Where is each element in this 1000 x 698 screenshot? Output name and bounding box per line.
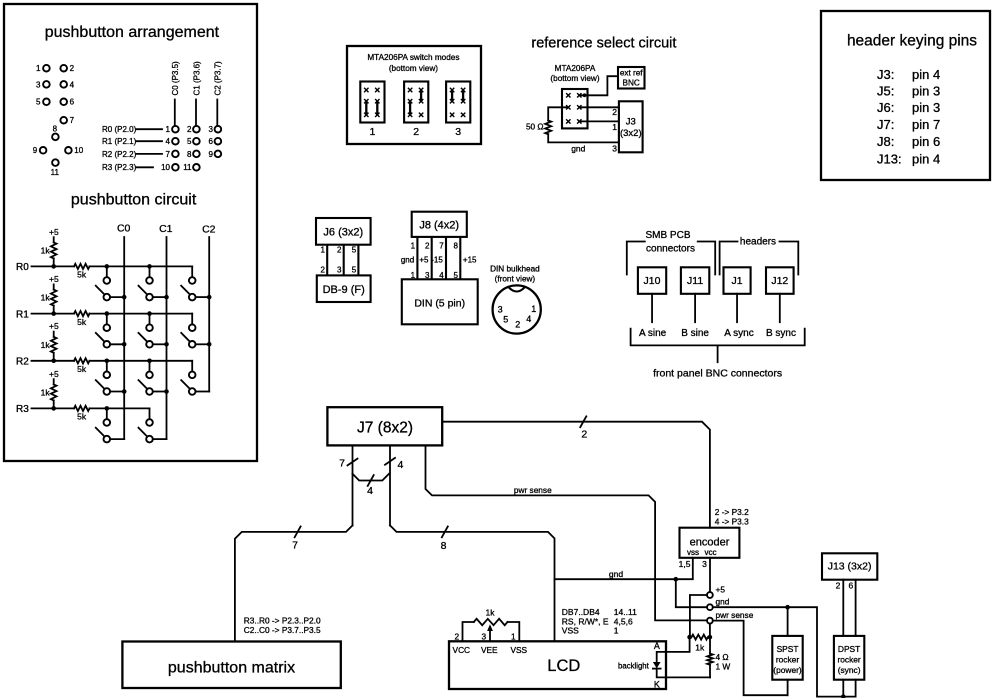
svg-text:headers: headers [740, 237, 776, 248]
svg-text:J13:: J13: [877, 151, 902, 166]
LCD signal mapping text [562, 607, 637, 636]
row label R2 [16, 357, 29, 368]
svg-text:J7:: J7: [877, 117, 894, 132]
svg-text:pwr sense: pwr sense [514, 485, 552, 495]
row R3 of matrix arrangement [102, 163, 200, 172]
encoder box [680, 528, 740, 558]
svg-text:R0 (P2.0): R0 (P2.0) [102, 125, 137, 134]
svg-text:5: 5 [503, 314, 508, 324]
keying entry J13: pin 4 [877, 151, 940, 166]
title: reference select circuit [531, 36, 676, 52]
+5 supply for row R0 [49, 227, 59, 243]
svg-text:1k: 1k [695, 643, 705, 653]
column label C0 [117, 223, 131, 235]
svg-text:C2..C0 -> P3.7..P3.5: C2..C0 -> P3.7..P3.5 [244, 625, 321, 635]
svg-text:5k: 5k [77, 270, 87, 280]
button 11 (arrangement view) [51, 159, 60, 177]
connector J6 (3x2) [316, 218, 371, 245]
svg-text:7: 7 [292, 540, 298, 552]
wire gnd run [555, 558, 693, 579]
svg-text:DB-9 (F): DB-9 (F) [323, 284, 365, 296]
pushbutton switch row R2 col C2 [181, 361, 209, 395]
svg-text:vcc: vcc [705, 548, 717, 557]
column wire C1 [166, 237, 168, 439]
svg-text:(3x2): (3x2) [620, 128, 642, 139]
svg-text:J3:: J3: [877, 67, 894, 82]
+5 supply for row R3 [49, 369, 59, 385]
bracket headers left [720, 242, 738, 275]
svg-text:MTA206PA: MTA206PA [555, 64, 596, 73]
svg-text:8: 8 [53, 125, 58, 134]
svg-text:1 W: 1 W [716, 662, 731, 672]
pushbutton switch row R3 col C1 [139, 408, 167, 442]
resistor 5k series row R1 [74, 311, 90, 327]
MTA206PA switch modes enclosure [347, 46, 481, 144]
svg-text:LCD: LCD [547, 657, 580, 675]
svg-text:gnd: gnd [716, 597, 730, 607]
svg-text:J12: J12 [771, 275, 788, 287]
junction row R0 / 1k [51, 264, 56, 269]
resistor 1k pull-up row R3 [41, 384, 57, 408]
title: pushbutton arrangement [45, 24, 220, 41]
svg-text:VSS: VSS [562, 626, 579, 636]
svg-text:B sync: B sync [766, 328, 796, 339]
svg-text:7: 7 [439, 241, 444, 250]
svg-text:C1 (P3.6): C1 (P3.6) [192, 61, 201, 96]
wire row R0 horizontal [32, 265, 193, 267]
column label C2 [202, 224, 216, 236]
pushbutton switch row R0 col C1 [139, 264, 169, 300]
svg-text:3: 3 [702, 559, 707, 569]
resistor 5k series row R0 [74, 264, 90, 280]
label SMB PCB connectors [645, 230, 694, 255]
wire J12 to B sync [779, 294, 781, 322]
svg-text:R0: R0 [16, 262, 29, 273]
svg-text:3: 3 [481, 631, 486, 641]
svg-text:R1 (P2.1): R1 (P2.1) [102, 137, 137, 146]
svg-text:J8 (4x2): J8 (4x2) [419, 220, 459, 232]
terminal +5 [707, 584, 725, 598]
button 8 (arrangement view) [52, 125, 59, 141]
label B sine [681, 328, 709, 339]
svg-text:9: 9 [33, 146, 38, 155]
svg-text:1: 1 [612, 122, 617, 132]
svg-text:4: 4 [166, 137, 171, 146]
resistor 1k backlight [687, 635, 712, 653]
switch mode 3 diagram [446, 82, 470, 138]
svg-text:R1: R1 [16, 309, 29, 320]
svg-text:5: 5 [352, 266, 357, 275]
svg-text:A: A [654, 641, 660, 651]
svg-text:4: 4 [398, 459, 404, 471]
J6 to DB-9 wire 2-3 [337, 245, 344, 276]
column label C1 [159, 223, 173, 235]
pushbutton switch row R2 col C0 [96, 359, 127, 395]
J8 to DIN wire pin 7 [431, 237, 446, 280]
+5 supply for row R2 [49, 321, 59, 337]
pot pin numbers 2 3 1 [454, 631, 516, 641]
svg-text:gnd: gnd [571, 144, 585, 154]
svg-text:3: 3 [337, 266, 342, 275]
SPST rocker (power) switch [772, 636, 802, 680]
svg-text:50 Ω: 50 Ω [526, 122, 544, 131]
potentiometer 1k contrast [463, 608, 520, 642]
label encoder pins 2,4 mapping [715, 507, 749, 527]
pushbutton switch row R1 col C1 [139, 311, 169, 347]
svg-text:2: 2 [70, 64, 75, 73]
connector J12 [766, 267, 794, 294]
pushbutton switch row R1 col C2 [181, 314, 211, 348]
switch mode 1 diagram [360, 82, 384, 138]
svg-text:8: 8 [441, 540, 447, 552]
terminal pwr sense [707, 610, 754, 623]
svg-text:4 Ω: 4 Ω [716, 652, 729, 662]
svg-text:gnd: gnd [401, 255, 414, 264]
svg-text:C2: C2 [202, 224, 216, 236]
svg-text:J13 (3x2): J13 (3x2) [828, 561, 872, 573]
svg-text:1: 1 [321, 246, 326, 255]
svg-text:2: 2 [337, 246, 342, 255]
svg-text:DPST: DPST [838, 644, 860, 654]
svg-text:1: 1 [369, 126, 375, 138]
keying entry J8: pin 6 [877, 134, 940, 149]
svg-text:8: 8 [187, 150, 192, 159]
pushbutton switch row R0 col C0 [96, 264, 127, 300]
svg-text:5k: 5k [77, 412, 87, 422]
label A sine [639, 328, 667, 339]
svg-text:pin 4: pin 4 [912, 151, 940, 166]
junction gnd [674, 577, 679, 582]
LCD pin labels VCC VEE VSS [453, 645, 528, 655]
wire J13 pin 2 to DPST [836, 580, 844, 636]
svg-text:rocker: rocker [776, 654, 799, 664]
svg-text:2: 2 [413, 126, 419, 138]
svg-text:11: 11 [51, 168, 60, 177]
connector DB-9 (F) [317, 275, 371, 302]
svg-text:J10: J10 [644, 275, 661, 287]
button 2 (arrangement view) [60, 64, 74, 73]
svg-text:4: 4 [367, 485, 373, 497]
title: header keying pins [847, 33, 977, 50]
button 1 (arrangement view) [36, 64, 50, 73]
column label C2 rotated [214, 61, 223, 126]
resistor 1k pull-up row R0 [41, 242, 57, 266]
svg-text:5: 5 [187, 137, 192, 146]
backlight LED diode [618, 661, 661, 670]
svg-text:B sine: B sine [681, 328, 709, 339]
svg-text:3: 3 [36, 80, 41, 89]
LCD backlight pin A [654, 641, 660, 651]
wire LED cathode K to 4 ohm [657, 669, 710, 678]
row R0 of matrix arrangement [102, 125, 221, 134]
svg-text:reference select circuit: reference select circuit [531, 36, 676, 52]
svg-text:C0: C0 [117, 223, 131, 235]
svg-text:BNC: BNC [623, 78, 640, 87]
svg-text:SPST: SPST [777, 644, 799, 654]
row R1 of matrix arrangement [102, 137, 221, 146]
svg-text:(bottom view): (bottom view) [389, 64, 438, 73]
svg-text:10: 10 [161, 163, 170, 172]
row label R3 [16, 404, 29, 415]
column label C1 rotated [192, 61, 201, 126]
pushbutton switch row R3 col C0 [96, 406, 124, 442]
svg-text:+5: +5 [419, 255, 429, 264]
svg-text:+5: +5 [49, 227, 59, 237]
svg-text:pin 3: pin 3 [912, 100, 940, 115]
wire pwr sense from J7 [426, 445, 708, 620]
title: MTA206PA switch modes (bottom view) [367, 53, 459, 73]
svg-text:10: 10 [74, 146, 83, 155]
label matrix port mapping [244, 616, 321, 635]
wire DPST left bottom pin [842, 680, 844, 697]
svg-text:+5: +5 [49, 369, 59, 379]
svg-text:pin 6: pin 6 [912, 134, 940, 149]
svg-text:J6 (3x2): J6 (3x2) [323, 227, 363, 239]
keying entry J7: pin 7 [877, 117, 940, 132]
svg-text:5: 5 [36, 98, 41, 107]
svg-text:MTA206PA switch modes: MTA206PA switch modes [367, 53, 459, 62]
svg-text:8: 8 [454, 241, 459, 250]
svg-text:1k: 1k [41, 293, 51, 303]
wire gnd to DPST bottom [713, 607, 856, 696]
svg-text:1: 1 [411, 241, 416, 250]
pushbutton panel enclosure box [4, 4, 257, 461]
label A sync [724, 328, 753, 339]
svg-text:SMB PCB: SMB PCB [645, 230, 690, 241]
wire J1 to A sync [736, 294, 738, 322]
svg-text:C0 (P3.5): C0 (P3.5) [171, 61, 180, 96]
junction row R2 / 1k [51, 359, 56, 364]
connector DIN (5 pin) [402, 279, 478, 324]
column wire C2 [208, 237, 210, 392]
svg-text:1k: 1k [41, 387, 51, 397]
svg-text:11: 11 [183, 163, 192, 172]
row label R1 [16, 309, 29, 320]
svg-text:1: 1 [166, 125, 171, 134]
wire switch to J3 pin 2 [579, 107, 619, 117]
svg-text:pin 4: pin 4 [912, 67, 940, 82]
wire SPST bottom pin [787, 680, 789, 696]
svg-text:2: 2 [187, 125, 192, 134]
J6 to DB-9 wire 1-2 [321, 245, 328, 276]
svg-text:+15: +15 [463, 255, 477, 264]
bridge bus 4 between pins [353, 474, 390, 497]
svg-text:A sync: A sync [724, 328, 753, 339]
resistor 50 ohm termination [526, 107, 568, 134]
wire J7 pin bus 7 upper [339, 445, 357, 525]
wire gnd branch to terminal [676, 579, 707, 607]
resistor 5k series row R3 [74, 406, 90, 422]
wire J13 pin 6 to DPST [848, 580, 855, 636]
wire row R3 horizontal [32, 407, 150, 409]
button 7 (arrangement view) [60, 116, 74, 125]
svg-text:gnd: gnd [609, 569, 623, 579]
button 9 (arrangement view) [33, 146, 47, 155]
wire bus 8 to LCD [390, 525, 555, 641]
svg-text:4: 4 [70, 80, 75, 89]
junction DPST left pin / gnd bus [841, 694, 846, 698]
svg-text:VEE: VEE [481, 645, 498, 655]
bracket SMB left [627, 242, 645, 275]
svg-text:(bottom view): (bottom view) [550, 74, 599, 83]
svg-text:R2: R2 [16, 357, 29, 368]
svg-text:pushbutton matrix: pushbutton matrix [168, 659, 295, 676]
svg-text:A sine: A sine [639, 328, 667, 339]
svg-text:J11: J11 [687, 275, 703, 287]
svg-text:3: 3 [209, 125, 214, 134]
svg-text:1: 1 [36, 64, 41, 73]
svg-text:2: 2 [836, 581, 841, 591]
svg-text:connectors: connectors [646, 244, 695, 255]
svg-text:5: 5 [352, 246, 357, 255]
svg-text:R3 (P2.3): R3 (P2.3) [102, 163, 137, 172]
MTA206PA switch body [562, 89, 588, 128]
bracket headers right [780, 242, 799, 275]
row R2 of matrix arrangement [102, 150, 221, 159]
LCD backlight pin K [654, 679, 660, 689]
J6 to DB-9 wire 5-5 [352, 245, 359, 276]
svg-text:3: 3 [455, 126, 461, 138]
svg-text:R2 (P2.2): R2 (P2.2) [102, 150, 137, 159]
svg-text:5k: 5k [77, 317, 87, 327]
svg-text:C2 (P3.7): C2 (P3.7) [214, 61, 223, 96]
svg-text:pin 7: pin 7 [912, 117, 940, 132]
svg-text:front panel BNC connectors: front panel BNC connectors [653, 368, 782, 380]
svg-text:C1: C1 [159, 223, 173, 235]
connector J10 [638, 267, 666, 294]
+5 supply for row R1 [49, 274, 59, 290]
wire bus 7 to pushbutton matrix [235, 525, 353, 641]
svg-text:9: 9 [209, 150, 214, 159]
svg-text:5k: 5k [77, 364, 87, 374]
row label R0 [16, 262, 29, 273]
svg-text:7: 7 [339, 458, 345, 470]
keying entry J6: pin 3 [877, 100, 940, 115]
svg-text:R3: R3 [16, 404, 29, 415]
connector J13 (3x2) [822, 553, 877, 579]
wire pwr sense to SPST bottom [713, 621, 788, 696]
button 10 (arrangement view) [65, 146, 84, 155]
svg-text:2: 2 [425, 241, 430, 250]
label headers [740, 237, 776, 248]
title: pushbutton circuit [71, 192, 197, 209]
wire switch to J3 pin 1 [579, 121, 619, 131]
svg-text:(front view): (front view) [495, 275, 536, 284]
wire J7 pin bus 4 upper [385, 445, 404, 525]
DPST rocker (sync) switch [834, 636, 864, 680]
keying entry J5: pin 3 [877, 83, 940, 98]
pushbutton switch row R2 col C1 [139, 359, 169, 395]
wire row R2 horizontal [32, 360, 193, 362]
svg-text:pwr sense: pwr sense [716, 610, 754, 620]
pushbutton matrix box [122, 642, 340, 689]
ext ref BNC box [618, 67, 645, 89]
resistor 4 ohm 1W [707, 637, 730, 677]
svg-text:backlight: backlight [618, 661, 650, 670]
svg-text:ext ref: ext ref [620, 69, 643, 78]
wire J7 to encoder (2 lines) [442, 416, 710, 527]
keying entry J3: pin 4 [877, 67, 940, 82]
label front panel BNC connectors [653, 368, 782, 380]
svg-text:4 -> P3.3: 4 -> P3.3 [715, 517, 749, 527]
svg-text:6: 6 [70, 98, 75, 107]
button 3 (arrangement view) [36, 80, 50, 89]
svg-text:J7 (8x2): J7 (8x2) [357, 420, 413, 437]
svg-text:VSS: VSS [510, 645, 527, 655]
svg-text:header keying pins: header keying pins [847, 33, 977, 50]
pushbutton switch row R1 col C0 [96, 311, 127, 347]
svg-text:2 -> P3.2: 2 -> P3.2 [715, 507, 749, 517]
svg-text:3: 3 [498, 305, 503, 315]
label MTA206PA (bottom view) [550, 64, 599, 83]
svg-text:2: 2 [321, 266, 326, 275]
junction gnd / SPST top [785, 605, 790, 610]
bracket SMB right [698, 242, 716, 275]
encoder pin labels 1,5 and 3 [679, 559, 707, 569]
svg-text:pushbutton circuit: pushbutton circuit [71, 192, 197, 209]
svg-text:+5: +5 [49, 321, 59, 331]
svg-text:1k: 1k [41, 340, 51, 350]
connector J1 [724, 267, 751, 294]
J8 to DIN wire pin 1 [401, 237, 418, 280]
svg-text:DIN bulkhead: DIN bulkhead [490, 265, 540, 274]
wire row R1 horizontal [32, 313, 193, 315]
connector J3 (3x2) [619, 101, 643, 152]
svg-text:3: 3 [612, 143, 617, 153]
wire SPST top pin [787, 607, 789, 636]
svg-text:1: 1 [531, 304, 536, 314]
connector J8 (4x2) [412, 212, 467, 237]
J8 to DIN wire pin 2 [419, 237, 431, 280]
svg-text:(power): (power) [773, 665, 802, 675]
wire encoder vcc pin 3 [709, 558, 711, 592]
svg-text:J8:: J8: [877, 134, 894, 149]
resistor 1k pull-up row R1 [41, 290, 57, 314]
svg-text:pushbutton arrangement: pushbutton arrangement [45, 24, 220, 41]
svg-text:pin 3: pin 3 [912, 83, 940, 98]
svg-text:DIN (5 pin): DIN (5 pin) [414, 298, 465, 310]
svg-text:J1: J1 [731, 275, 742, 287]
wire J11 to B sine [694, 294, 696, 322]
button 5 (arrangement view) [36, 98, 50, 107]
connector J7 (8x2) [327, 407, 442, 445]
wire switch to ext ref BNC [579, 76, 618, 97]
svg-text:VCC: VCC [453, 645, 471, 655]
svg-text:1,5: 1,5 [679, 559, 691, 569]
junction row R1 / 1k [51, 311, 56, 316]
svg-text:7: 7 [166, 150, 171, 159]
svg-text:7: 7 [70, 116, 75, 125]
button 6 (arrangement view) [60, 98, 74, 107]
svg-text:J6:: J6: [877, 100, 894, 115]
column wire C0 [123, 237, 125, 439]
svg-text:6: 6 [848, 581, 853, 591]
svg-text:4: 4 [526, 314, 531, 324]
svg-text:encoder: encoder [690, 537, 730, 549]
svg-text:2: 2 [612, 107, 617, 117]
header keying pins box [821, 11, 990, 180]
resistor 1k pull-up row R2 [41, 337, 57, 361]
svg-text:(sync): (sync) [838, 665, 861, 675]
wire gnd to J3 pin 3 [548, 134, 619, 154]
J8 to DIN wire pin 8 [454, 237, 477, 280]
svg-text:2: 2 [515, 320, 520, 330]
switch mode 2 diagram [404, 82, 428, 138]
connector J11 [681, 267, 709, 294]
svg-text:rocker: rocker [837, 654, 860, 664]
DIN bulkhead connector front view [493, 285, 541, 333]
LCD module box [449, 641, 666, 689]
